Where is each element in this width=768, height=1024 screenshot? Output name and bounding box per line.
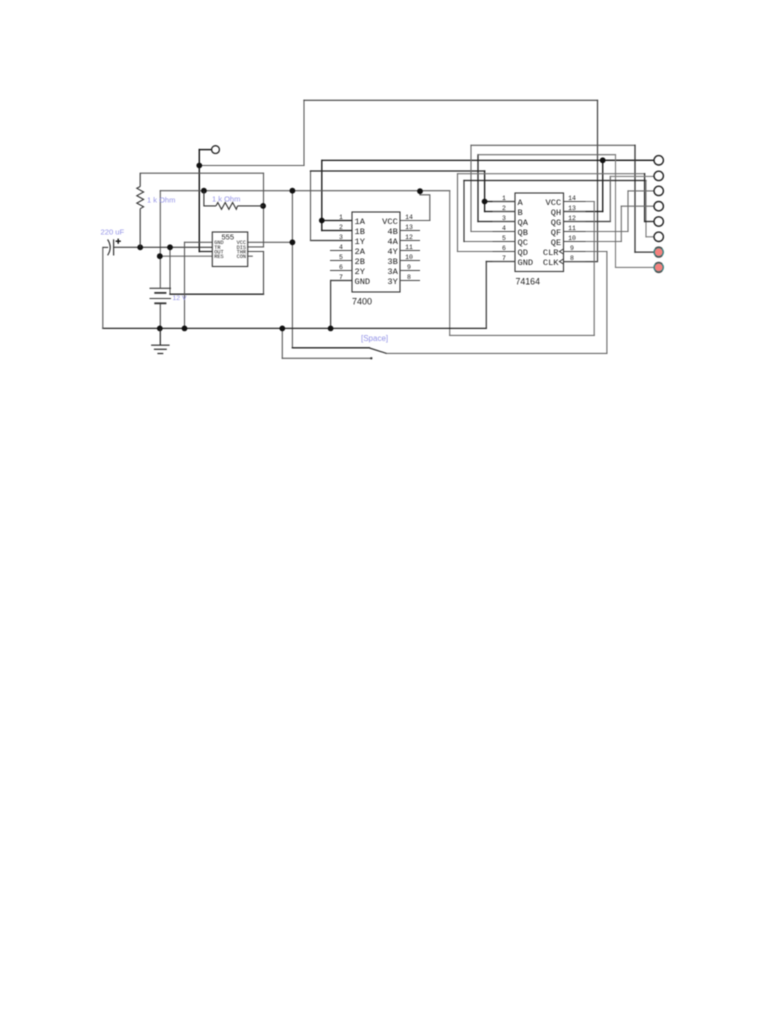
svg-text:1A: 1A bbox=[355, 217, 366, 227]
svg-text:CON: CON bbox=[237, 254, 246, 260]
svg-text:8: 8 bbox=[407, 274, 411, 281]
junction dot: 7400 pin1/pin2 tie bbox=[319, 218, 325, 224]
IC U3 74164 left pin labels bbox=[518, 198, 534, 268]
wire net: QC (74164 pin5) to terminal6 bbox=[464, 181, 654, 242]
junction dot: R2 right on DIS drop bbox=[260, 203, 266, 209]
svg-text:2A: 2A bbox=[355, 247, 366, 257]
svg-text:7: 7 bbox=[339, 274, 343, 281]
svg-text:13: 13 bbox=[568, 205, 576, 212]
wire net: QE (74164 pin10) to terminal4 bbox=[564, 206, 654, 241]
capacitor C1 220uF bbox=[103, 239, 114, 255]
svg-text:220 uF: 220 uF bbox=[101, 227, 125, 236]
svg-text:GND: GND bbox=[355, 277, 371, 287]
IC U2 7400 right pin numbers bbox=[405, 214, 413, 281]
svg-text:RES: RES bbox=[214, 254, 223, 260]
svg-text:3: 3 bbox=[502, 215, 506, 222]
IC U2 7400 body bbox=[352, 212, 400, 292]
svg-text:1: 1 bbox=[339, 214, 343, 221]
junction dot: THR loop on TR row bbox=[167, 244, 173, 250]
svg-text:74164: 74164 bbox=[516, 276, 541, 286]
wire net: CLR to switch common bbox=[387, 252, 607, 354]
svg-text:QG: QG bbox=[551, 218, 561, 228]
svg-text:2: 2 bbox=[502, 205, 506, 212]
svg-text:9: 9 bbox=[407, 264, 411, 271]
svg-text:1B: 1B bbox=[355, 227, 365, 237]
wire net: QD (74164 pin6) to terminal5 bbox=[458, 174, 654, 252]
svg-text:8: 8 bbox=[570, 255, 574, 262]
svg-text:3A: 3A bbox=[387, 267, 398, 277]
junction dot: battery minus / ground bbox=[157, 326, 163, 332]
svg-text:2Y: 2Y bbox=[355, 267, 366, 277]
svg-text:14: 14 bbox=[568, 195, 576, 202]
svg-text:10: 10 bbox=[405, 254, 413, 261]
svg-text:CLR: CLR bbox=[543, 248, 559, 258]
svg-text:4B: 4B bbox=[387, 227, 397, 237]
switch SW1 lever bbox=[370, 348, 387, 353]
svg-text:5: 5 bbox=[502, 235, 506, 242]
svg-text:4: 4 bbox=[502, 225, 506, 232]
svg-text:13: 13 bbox=[405, 224, 413, 231]
junction dot: switch branch on rail bbox=[279, 326, 285, 332]
junction dot: 555 VCC pin bbox=[290, 239, 296, 245]
svg-text:QD: QD bbox=[518, 248, 528, 258]
svg-text:12 V: 12 V bbox=[173, 295, 187, 302]
capacitor C1 plus sign bbox=[116, 239, 121, 244]
svg-text:QH: QH bbox=[551, 208, 561, 218]
wire net: QB (74164 pin4) to terminal7 bbox=[471, 145, 654, 252]
battery B1 12V bbox=[150, 288, 172, 303]
svg-text:4: 4 bbox=[339, 244, 343, 251]
svg-text:VCC: VCC bbox=[382, 217, 398, 227]
junction dot: 555 GND on rail bbox=[182, 326, 188, 332]
svg-text:QF: QF bbox=[551, 228, 561, 238]
junction dot: R1 bottom on TR row bbox=[137, 244, 143, 250]
svg-text:7400: 7400 bbox=[352, 297, 372, 307]
IC U2 7400 left pin labels bbox=[355, 217, 371, 287]
svg-text:10: 10 bbox=[568, 235, 576, 242]
svg-text:QE: QE bbox=[551, 238, 561, 248]
wire net: QG (74164 pin12) to terminal2 bbox=[564, 176, 654, 221]
IC U3 74164 pin stubs bbox=[493, 202, 585, 262]
svg-text:9: 9 bbox=[570, 245, 574, 252]
svg-text:12: 12 bbox=[568, 215, 576, 222]
probe terminal circle top-left bbox=[212, 146, 220, 154]
svg-text:11: 11 bbox=[405, 244, 413, 251]
svg-text:5: 5 bbox=[339, 254, 343, 261]
svg-text:A: A bbox=[518, 198, 524, 208]
svg-text:1Y: 1Y bbox=[355, 237, 366, 247]
IC U3 74164 right pin labels bbox=[543, 198, 561, 268]
junction dot: VCC drop to 555 bbox=[290, 188, 296, 194]
svg-text:GND: GND bbox=[518, 258, 534, 268]
wire net: ground rail bbox=[103, 242, 515, 358]
IC U3 74164 left pin numbers bbox=[502, 195, 506, 262]
IC U1 555 CON stub bbox=[248, 255, 253, 257]
svg-text:[Space]: [Space] bbox=[361, 334, 388, 343]
svg-text:QB: QB bbox=[518, 228, 528, 238]
svg-text:1: 1 bbox=[502, 195, 506, 202]
svg-text:3B: 3B bbox=[387, 257, 397, 267]
terminal LED 7 lit bbox=[654, 247, 663, 257]
svg-text:6: 6 bbox=[339, 264, 343, 271]
wire net: VCC 12V rail bbox=[160, 191, 595, 348]
svg-text:1 k Ohm: 1 k Ohm bbox=[212, 195, 240, 204]
IC U1 555 right pin labels bbox=[237, 240, 246, 260]
wire net: QF (74164 pin11) to terminal3 bbox=[564, 191, 654, 232]
junction dot: VCC at R2 bbox=[201, 188, 207, 194]
switch SW1 open contact nub bbox=[370, 357, 372, 359]
wire net: 555 OUT to probe and 74164 CLK bbox=[199, 100, 597, 261]
IC U2 7400 right pin labels bbox=[382, 217, 398, 287]
resistor R1 1k vertical bbox=[137, 173, 144, 247]
IC U1 555 left pin labels bbox=[214, 240, 223, 260]
svg-text:4Y: 4Y bbox=[387, 247, 398, 257]
svg-text:VCC: VCC bbox=[546, 198, 562, 208]
svg-text:7: 7 bbox=[502, 255, 506, 262]
junction dot: QH at terminal1 branch bbox=[600, 157, 606, 163]
wire net: QA (74164 pin3) to terminal8 bbox=[478, 155, 654, 268]
IC U3 74164 right pin numbers bbox=[568, 195, 576, 262]
svg-text:QC: QC bbox=[518, 238, 528, 248]
svg-text:B: B bbox=[518, 208, 523, 218]
IC U3 74164 clock/clr wedges bbox=[559, 249, 563, 264]
junction dot: VCC drop to 7400 bbox=[417, 188, 423, 194]
svg-text:11: 11 bbox=[568, 225, 576, 232]
svg-text:14: 14 bbox=[405, 214, 413, 221]
svg-text:3: 3 bbox=[339, 234, 343, 241]
svg-text:CLK: CLK bbox=[543, 258, 559, 268]
junction dot: 7400 GND on rail bbox=[328, 326, 334, 332]
terminal LED row: open terminals 1-6 bbox=[654, 156, 663, 242]
IC U2 7400 pin stubs bbox=[331, 231, 420, 281]
svg-text:3Y: 3Y bbox=[387, 277, 398, 287]
resistor R2 1k horizontal bbox=[204, 191, 264, 210]
svg-text:2B: 2B bbox=[355, 257, 365, 267]
svg-text:2: 2 bbox=[339, 224, 343, 231]
svg-text:QA: QA bbox=[518, 218, 529, 228]
wire net: QH feedback (74164 pin13 to terminal1 and 7400 1A/1B) bbox=[322, 160, 654, 230]
junction dot: OUT node below probe bbox=[196, 163, 202, 169]
wire net: R1 top to R2 right to DIS bbox=[140, 173, 263, 247]
IC U2 7400 left pin numbers bbox=[339, 214, 343, 281]
IC U1 555 body bbox=[212, 232, 247, 267]
junction dot: 74164 A/B tie bbox=[482, 199, 488, 205]
wire net: 7400 1Y to 74164 A and B bbox=[311, 171, 516, 241]
svg-text:6: 6 bbox=[502, 245, 506, 252]
terminal LED 8 lit bbox=[654, 262, 663, 272]
junction dot: RES tap on battery feed bbox=[157, 253, 163, 259]
wire net: TR/THR capacitor node bbox=[114, 247, 264, 294]
svg-text:1 k Ohm: 1 k Ohm bbox=[147, 196, 175, 205]
svg-text:4A: 4A bbox=[387, 237, 398, 247]
IC U3 74164 body bbox=[515, 193, 564, 272]
svg-text:12: 12 bbox=[405, 234, 413, 241]
ground symbol bbox=[152, 328, 169, 353]
